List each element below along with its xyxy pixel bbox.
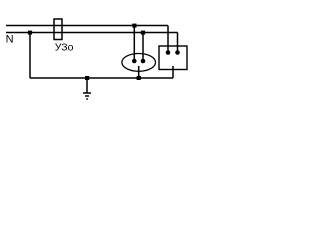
node: N wire to PE drop junction: [28, 31, 32, 35]
ground bar 1: [83, 92, 91, 94]
node: L wire to socket X1 left pin: [132, 24, 136, 28]
wire: vertical drop from N junction: [29, 33, 31, 79]
wire: N bend down to socket X2 right pin: [177, 33, 179, 53]
wire: bottom PE bus: [30, 77, 173, 79]
X2 pin left: [166, 50, 171, 55]
socket X2 (box outlet): [159, 46, 187, 70]
X2 pin right: [175, 50, 180, 55]
X1 earth pin: [138, 66, 140, 78]
wire N (neutral line): [6, 32, 178, 34]
X1 pin right: [141, 59, 146, 64]
socket X1 (round outlet): [122, 54, 156, 72]
ground bar 2: [85, 95, 89, 97]
node: X1 earth to PE bus: [137, 76, 141, 80]
svg-text:УЗо: УЗо: [55, 42, 74, 54]
node: ground junction on PE bus: [85, 76, 89, 80]
wire: drop from N to X1 right pin: [142, 33, 144, 62]
wire: L bend down to socket X2 left pin: [167, 26, 169, 53]
ground bar 3: [86, 98, 88, 100]
ground stem: [86, 78, 88, 93]
wire: drop from L to X1 left pin: [133, 26, 135, 62]
X1 pin left: [132, 59, 137, 64]
X2 earth pin: [172, 66, 174, 78]
node: N wire to socket X1 right pin: [141, 31, 145, 35]
wire L (top phase line): [6, 25, 168, 27]
svg-text:N: N: [6, 34, 14, 46]
RCD УЗО rectangle: [54, 19, 62, 40]
